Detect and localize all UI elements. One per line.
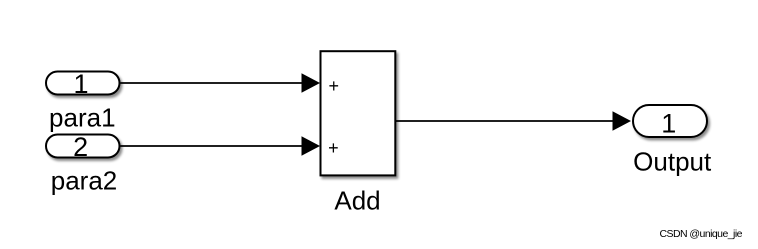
svg-text:Add: Add [334,186,380,216]
svg-text:2: 2 [73,132,88,162]
arrowhead into Add input 1 [302,73,321,93]
inport block 1 (pill) [46,72,120,95]
svg-text:CSDN @unique_jie: CSDN @unique_jie [660,228,743,240]
svg-text:para2: para2 [51,166,118,196]
outport block (pill) [633,105,707,137]
wire from Add output to outport [396,120,614,122]
svg-text:1: 1 [661,109,676,139]
svg-text:1: 1 [73,69,88,99]
arrowhead into Add input 2 [302,136,321,156]
wire from para2 to Add input 2 [121,145,304,147]
inport block 2 (pill) [46,135,120,158]
arrowhead into outport [613,111,632,131]
Add block U1 [321,51,396,175]
svg-text:Output: Output [633,147,712,177]
svg-text:+: + [328,138,339,158]
svg-text:+: + [329,76,340,96]
svg-text:para1: para1 [49,103,116,133]
wire from para1 to Add input 1 [121,82,304,84]
